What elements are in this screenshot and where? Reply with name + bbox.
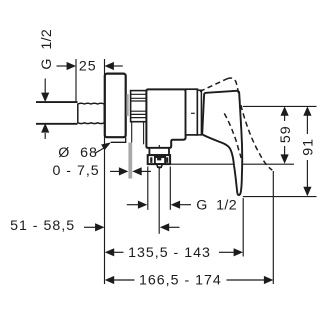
collar tick (191, 112, 195, 114)
outlet hose nut (148, 155, 170, 164)
bottom reference line (243, 196, 317, 198)
wire extension line 25 left (75, 59, 77, 102)
outlet center extension line (158, 167, 160, 234)
handle raised position dashed rear curve (227, 78, 272, 170)
label G 1/2 top-left (rotated) (39, 29, 55, 70)
dimension 166,5 - 174 (105, 272, 273, 288)
dimension 51 - 58,5 (84, 223, 180, 231)
svg-text:135,5 - 143: 135,5 - 143 (128, 245, 211, 261)
outlet flange (149, 148, 169, 155)
grey adjustment band lower (128, 143, 132, 179)
outlet tip (157, 164, 163, 169)
pipe top line (36, 101, 78, 103)
leader line diameter 68 (95, 142, 111, 153)
cartridge collar (186, 89, 198, 135)
mixer body (146, 89, 185, 147)
svg-text:166,5 - 174: 166,5 - 174 (139, 272, 222, 288)
handle raised position dashed top (200, 79, 227, 92)
G1/2 outlet extension lines (148, 167, 171, 210)
grey thread strip upper (126, 94, 128, 116)
pipe bottom line (36, 123, 78, 125)
svg-text:G 1/2: G 1/2 (39, 29, 55, 70)
dimension G1/2 vertical arrows (41, 79, 49, 140)
svg-text:91: 91 (300, 138, 316, 156)
handle lever solid (202, 91, 242, 195)
svg-text:51 - 58,5: 51 - 58,5 (10, 218, 75, 234)
dimension G 1/2 outlet (127, 201, 191, 209)
escutcheon rim lower edge (111, 138, 126, 143)
dimension 135,5 - 143 (105, 245, 243, 261)
union nut with thread ridges (131, 91, 148, 122)
threaded wall stud (78, 103, 105, 123)
svg-text:0 - 7,5: 0 - 7,5 (52, 163, 99, 179)
svg-text:59: 59 (278, 125, 294, 143)
dimension 0 - 7,5 (110, 167, 151, 175)
handle ring (197, 90, 201, 135)
extension line handle tip (242, 198, 244, 257)
handle raised grip dashed inner arc (224, 113, 241, 158)
dimension 25 (57, 59, 123, 75)
sub-nut sleeve below (132, 122, 144, 145)
outlet level reference line (171, 163, 234, 165)
top reference line (243, 105, 317, 107)
svg-text:G 1/2: G 1/2 (196, 198, 237, 214)
escutcheon (105, 74, 126, 138)
body center tick (158, 145, 160, 149)
dimension 59 (278, 106, 294, 163)
wire wall extension line (104, 59, 106, 284)
extension line raised tip (272, 171, 274, 284)
dimension 91 (300, 106, 316, 196)
svg-text:Ø 68: Ø 68 (58, 145, 98, 161)
svg-text:25: 25 (79, 59, 97, 75)
